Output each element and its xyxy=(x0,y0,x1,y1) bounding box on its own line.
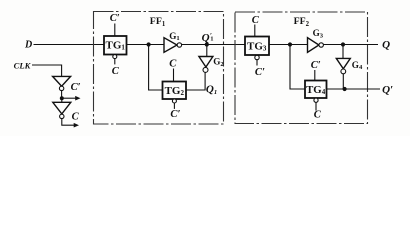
svg-text:G2: G2 xyxy=(213,56,224,67)
junction between inverters xyxy=(60,96,64,100)
svg-text:C: C xyxy=(72,111,80,122)
transmission gate TG2 xyxy=(163,82,187,100)
wire inverter1 output xyxy=(61,91,63,99)
bubble below TG4 xyxy=(314,98,318,102)
wire D input xyxy=(34,44,105,46)
svg-text:C′: C′ xyxy=(311,60,321,71)
wire C arrow xyxy=(62,119,79,128)
svg-text:G4: G4 xyxy=(352,60,363,71)
junction after TG1 xyxy=(147,42,151,46)
wire Q' output xyxy=(327,88,381,90)
svg-text:Q1: Q1 xyxy=(206,83,217,96)
svg-text:C: C xyxy=(169,58,177,69)
svg-text:Q: Q xyxy=(382,39,390,51)
svg-text:C′: C′ xyxy=(110,13,120,24)
svg-text:C′: C′ xyxy=(170,109,180,120)
wire C to TG3 xyxy=(254,25,256,37)
inverter G2 xyxy=(199,57,213,73)
wire TG2 feedback to input node xyxy=(149,45,163,91)
wire C' to TG4 xyxy=(314,70,316,81)
wire C to TG2 xyxy=(173,69,175,82)
node Q junction xyxy=(341,42,345,46)
inverter clock buffer 1 xyxy=(53,76,71,90)
node Q1' junction xyxy=(205,42,209,46)
wire G4 to Q' line xyxy=(342,74,344,89)
FF2 dashed box xyxy=(235,12,368,124)
wire bubble to C xyxy=(114,59,116,65)
wire TG3 to G3 xyxy=(269,44,308,46)
FF1 dashed box xyxy=(94,12,224,125)
svg-text:C: C xyxy=(314,110,322,121)
wire C' arrow xyxy=(62,96,81,101)
bubble below TG1 xyxy=(113,55,117,59)
svg-text:Q′: Q′ xyxy=(382,84,393,96)
svg-text:C: C xyxy=(112,66,120,77)
wire Q1' down to G2 xyxy=(206,45,208,57)
inverter G4 xyxy=(336,58,350,73)
svg-text:G1: G1 xyxy=(169,31,179,42)
inverter clock buffer 2 xyxy=(53,102,71,118)
wire Q down to G4 xyxy=(342,45,344,59)
svg-text:CLK: CLK xyxy=(14,61,32,71)
svg-text:C′: C′ xyxy=(71,82,81,93)
junction on Q' line xyxy=(343,87,347,91)
wire C' to TG1 xyxy=(114,24,116,37)
junction after TG3 xyxy=(288,42,292,46)
svg-text:C: C xyxy=(252,15,260,26)
wire CLK input xyxy=(32,65,62,76)
bubble below TG3 xyxy=(255,55,259,59)
inverter G1 xyxy=(164,38,182,53)
bubble below TG2 xyxy=(172,99,176,103)
transmission gate TG4 xyxy=(305,81,327,99)
svg-text:G3: G3 xyxy=(313,28,324,39)
transmission gate TG3 xyxy=(245,37,269,56)
wire TG4 feedback to G3 input node xyxy=(290,45,305,90)
wire bubble to C' xyxy=(256,60,258,66)
wire bubble to C' xyxy=(173,103,175,109)
transmission gate TG1 xyxy=(104,36,127,55)
wire bubble to C xyxy=(315,102,317,110)
svg-text:FF2: FF2 xyxy=(294,16,310,28)
wire into inverter 2 xyxy=(61,98,63,102)
svg-text:FF1: FF1 xyxy=(150,16,166,28)
svg-text:Q: Q xyxy=(202,32,210,44)
svg-text:1: 1 xyxy=(210,35,213,42)
inverter G3 xyxy=(308,38,324,53)
wire G1 to TG3 xyxy=(182,44,245,46)
wire G3 to Q output xyxy=(323,44,378,46)
wire TG1 to G1 xyxy=(127,44,165,46)
svg-text:C′: C′ xyxy=(255,67,265,78)
wire G2 to TG2 xyxy=(186,72,205,90)
svg-text:D: D xyxy=(24,40,32,51)
